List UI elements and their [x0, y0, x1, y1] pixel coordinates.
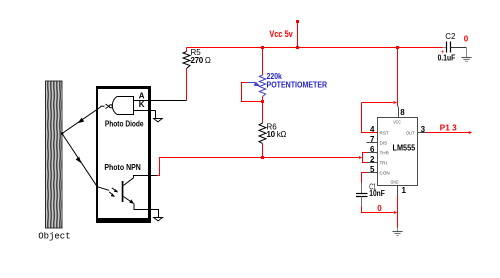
svg-text:7: 7 [370, 135, 375, 144]
svg-text:CON: CON [380, 171, 390, 176]
svg-text:0: 0 [377, 204, 382, 213]
svg-text:10 kΩ: 10 kΩ [267, 130, 287, 139]
svg-text:DIS: DIS [380, 141, 388, 146]
svg-text:8: 8 [400, 108, 405, 117]
svg-text:270 Ω: 270 Ω [191, 56, 211, 65]
svg-text:Object: Object [38, 232, 70, 242]
svg-text:RST: RST [380, 131, 389, 136]
svg-text:TRI: TRI [380, 161, 387, 166]
svg-text:VCC: VCC [393, 120, 401, 125]
svg-text:10nF: 10nF [369, 189, 385, 198]
svg-text:+: + [441, 49, 445, 56]
svg-text:Photo Diode: Photo Diode [105, 119, 144, 128]
svg-text:LM555: LM555 [393, 144, 416, 153]
svg-text:Photo NPN: Photo NPN [104, 163, 141, 172]
svg-text:C2: C2 [445, 32, 456, 41]
svg-text:P1 3: P1 3 [440, 124, 458, 133]
svg-text:POTENTIOMETER: POTENTIOMETER [267, 80, 328, 89]
svg-text:3: 3 [421, 125, 426, 134]
svg-text:0: 0 [464, 34, 469, 43]
svg-text:Vcc 5v: Vcc 5v [269, 29, 292, 39]
svg-text:6: 6 [370, 145, 375, 154]
svg-text:GND: GND [391, 179, 400, 184]
svg-text:K: K [139, 100, 145, 109]
svg-text:2: 2 [370, 155, 375, 164]
svg-text:5: 5 [370, 165, 375, 174]
svg-text:THR: THR [380, 151, 390, 156]
svg-text:OUT: OUT [406, 131, 415, 136]
svg-text:1: 1 [402, 186, 407, 195]
